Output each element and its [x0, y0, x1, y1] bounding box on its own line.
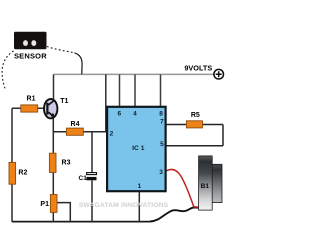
wire pin5	[166, 145, 223, 147]
svg-text:7: 7	[160, 119, 164, 126]
wire drop to pin 6	[119, 74, 121, 106]
transistor T1	[44, 99, 57, 118]
dashed sensor curve left	[2, 51, 13, 91]
sensor body	[14, 32, 47, 49]
resistor R4	[66, 128, 83, 135]
svg-text:IC 1: IC 1	[132, 145, 145, 152]
wire C1 top lead	[91, 132, 93, 173]
resistor R3	[49, 153, 56, 172]
svg-text:R3: R3	[62, 160, 71, 167]
resistor R1	[21, 105, 38, 112]
wire bottom ground rail	[12, 221, 151, 223]
svg-text:C1: C1	[79, 175, 88, 182]
wire riser to pin2 net	[105, 74, 107, 131]
svg-text:R5: R5	[191, 112, 200, 119]
svg-text:8: 8	[159, 111, 163, 118]
battery B1 front cell	[199, 156, 213, 210]
wire P1 bottom lead	[52, 212, 54, 222]
resistor R5	[186, 121, 202, 128]
sensor eye left	[23, 40, 28, 46]
op-amp IC1 body	[107, 107, 166, 191]
svg-text:5: 5	[160, 141, 164, 148]
svg-text:4: 4	[133, 111, 137, 118]
wire red battery lead from pin3	[166, 170, 199, 208]
svg-text:2: 2	[110, 130, 114, 137]
wire collector riser	[53, 74, 55, 100]
wire R5 right vertical	[222, 125, 224, 146]
wire emitter lead	[52, 118, 54, 154]
wire pin2 net through R4	[53, 131, 107, 133]
wire base wire R1	[12, 107, 45, 109]
dashed sensor curve right	[47, 47, 75, 53]
svg-text:T1: T1	[60, 98, 68, 105]
wire top positive rail	[54, 73, 214, 75]
wire pin1 drop	[138, 192, 140, 222]
wire drop to pin 4	[134, 74, 136, 106]
wire P1 wiper	[57, 203, 70, 222]
battery B1 rear cell	[212, 164, 222, 202]
wire black battery lead	[150, 207, 199, 221]
svg-text:P1: P1	[40, 201, 49, 208]
svg-text:SWAGATAM INNOVATIONS: SWAGATAM INNOVATIONS	[79, 202, 169, 209]
svg-text:R4: R4	[71, 121, 80, 128]
dashed sensor curve right solid tail	[75, 53, 83, 74]
svg-text:3: 3	[159, 169, 163, 176]
wire drop to pin 8	[160, 74, 162, 106]
sensor eye right	[31, 40, 36, 46]
wire pin7 to R5	[166, 124, 223, 126]
svg-text:R2: R2	[18, 170, 27, 177]
svg-text:1: 1	[138, 183, 142, 190]
preset P1	[50, 195, 57, 213]
svg-text:B1: B1	[201, 183, 210, 190]
wire C1 bottom lead	[91, 180, 93, 221]
capacitor C1	[86, 173, 96, 181]
svg-text:6: 6	[117, 111, 121, 118]
9V terminal	[214, 69, 224, 79]
wire R3 to P1 link	[52, 172, 54, 194]
resistor R2	[9, 162, 16, 184]
wire left rail	[11, 108, 13, 222]
svg-text:SENSOR: SENSOR	[14, 51, 47, 60]
svg-text:R1: R1	[27, 96, 36, 103]
svg-text:9VOLTS: 9VOLTS	[184, 64, 212, 73]
